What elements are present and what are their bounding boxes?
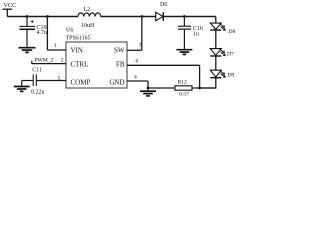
svg-text:PWM_2: PWM_2 xyxy=(35,58,54,64)
ground (C16) xyxy=(176,50,192,55)
svg-text:D7: D7 xyxy=(227,52,234,58)
svg-text:CTRL: CTRL xyxy=(71,61,89,69)
capacitor C16 xyxy=(178,17,191,50)
svg-text:R12: R12 xyxy=(178,79,188,85)
svg-text:D6: D6 xyxy=(160,2,167,8)
svg-text:0.57: 0.57 xyxy=(179,92,189,98)
capacitor C10 xyxy=(20,17,36,48)
LED D8 xyxy=(210,23,225,30)
svg-text:10uH: 10uH xyxy=(81,23,95,29)
node GND junction xyxy=(147,87,150,90)
svg-text:3: 3 xyxy=(139,42,142,48)
svg-text:0.22u: 0.22u xyxy=(31,90,45,96)
wire GND pin xyxy=(127,81,148,88)
svg-text:5: 5 xyxy=(58,76,61,82)
svg-text:6: 6 xyxy=(136,59,139,65)
svg-text:SW: SW xyxy=(114,47,125,55)
wire R12 to LED string xyxy=(192,87,216,89)
power symbol VCC xyxy=(3,9,13,16)
svg-text:L2: L2 xyxy=(84,7,91,13)
inductor L2 xyxy=(78,13,101,17)
node FB junction xyxy=(198,87,201,90)
capacitor C11 xyxy=(22,74,66,86)
node C10 junction xyxy=(26,15,29,18)
svg-text:2: 2 xyxy=(61,57,64,63)
svg-text:VIN: VIN xyxy=(71,47,83,55)
svg-text:TPS61165: TPS61165 xyxy=(66,35,91,41)
IC U6 TPS61165 xyxy=(66,42,127,88)
LED D9 xyxy=(210,70,225,78)
svg-text:GND: GND xyxy=(109,79,124,87)
diode D6 xyxy=(156,12,164,21)
svg-text:FB: FB xyxy=(116,61,125,69)
wire top rail xyxy=(7,16,216,18)
LED D7 xyxy=(210,49,225,56)
ground (C11) xyxy=(14,87,30,92)
svg-text:U6: U6 xyxy=(66,27,73,33)
node SW junction xyxy=(140,15,143,18)
svg-text:4.7u: 4.7u xyxy=(37,30,48,36)
ground (C10) xyxy=(19,48,36,53)
resistor R12 xyxy=(175,86,192,90)
wire D9 bottom xyxy=(200,78,216,88)
wire FB xyxy=(127,65,200,88)
wire D8-D7 xyxy=(215,30,217,49)
wire SW riser xyxy=(127,17,142,51)
ground (GND pin / R12) xyxy=(140,88,156,96)
wire PWM_2 to CTRL pin 2 xyxy=(32,61,66,64)
wire VIN riser xyxy=(47,17,66,51)
svg-text:1u: 1u xyxy=(193,32,199,38)
svg-text:D8: D8 xyxy=(229,29,236,35)
svg-text:1: 1 xyxy=(54,43,57,49)
svg-text:VCC: VCC xyxy=(4,2,17,9)
svg-text:COMP: COMP xyxy=(71,79,91,87)
wire LED string top xyxy=(215,17,217,24)
wire D7-D9 xyxy=(215,56,217,70)
svg-text:C11: C11 xyxy=(32,68,42,74)
wire ground to R12 xyxy=(148,87,175,89)
svg-text:4: 4 xyxy=(134,74,137,80)
node C16 junction xyxy=(183,15,186,18)
svg-text:D9: D9 xyxy=(228,73,235,79)
node VIN junction xyxy=(46,15,49,18)
